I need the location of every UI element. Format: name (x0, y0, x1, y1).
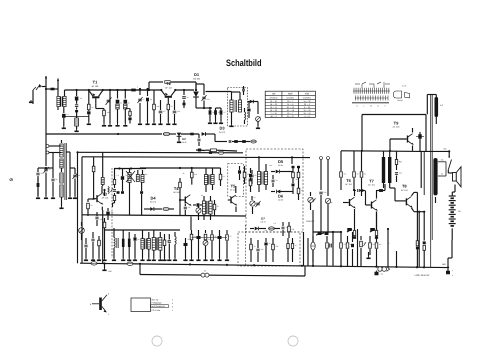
wire (387, 228, 389, 267)
svg-text:47: 47 (230, 235, 232, 238)
cap C12 (248, 102, 251, 119)
cap C13 (198, 134, 201, 146)
svg-text:5n: 5n (91, 204, 93, 207)
dial connector (393, 85, 409, 102)
long wire (361, 115, 426, 152)
junction (117, 133, 119, 135)
return bus (140, 264, 305, 276)
ground (29, 100, 33, 103)
IF transformer Tr4 (152, 230, 163, 261)
node U (45, 76, 47, 134)
resistor R10 (216, 108, 224, 124)
svg-text:0,1: 0,1 (67, 113, 69, 116)
resistor R23 (191, 167, 194, 178)
cap C14 (229, 140, 231, 143)
wire (396, 251, 398, 267)
pot P7 (360, 236, 366, 266)
svg-text:30: 30 (276, 179, 278, 182)
IF filter F1 box (228, 88, 248, 127)
cap C29 (272, 175, 275, 187)
tuning gang C18 (70, 168, 78, 199)
T5 symbol (228, 186, 238, 212)
wire (365, 191, 367, 206)
resistor R50 (375, 212, 378, 239)
resistor R22 (179, 178, 182, 201)
blob C23 (133, 234, 137, 261)
svg-text:15k: 15k (177, 110, 180, 113)
wire (45, 134, 47, 160)
svg-text:5k: 5k (80, 97, 82, 100)
wire (104, 89, 131, 91)
svg-text:D7: D7 (261, 217, 265, 221)
svg-text:2: 2 (108, 293, 110, 296)
diode D5 (271, 159, 286, 173)
resistor R45 (346, 236, 349, 266)
module box (228, 164, 244, 197)
svg-text:3k: 3k (364, 242, 366, 245)
antenna arrow (57, 78, 59, 90)
wire (332, 231, 334, 266)
svg-text:0,1: 0,1 (223, 175, 225, 178)
svg-text:T1: T1 (93, 80, 98, 85)
svg-text:1: 1 (172, 309, 173, 312)
wire rail (304, 232, 342, 266)
resistor R48 (375, 236, 378, 267)
volume pot P1 (79, 222, 85, 240)
svg-text:50: 50 (49, 168, 51, 171)
cap C32 (256, 240, 259, 262)
svg-text:Fertigungs-: Fertigungs- (152, 302, 163, 305)
svg-text:T2: T2 (166, 81, 171, 86)
svg-text:20 — 18: 20 — 18 (287, 109, 294, 112)
svg-text:20: 20 (399, 160, 401, 163)
svg-text:7 — 10: 7 — 10 (271, 112, 277, 115)
ferrite antenna L4 (60, 140, 67, 203)
svg-text:5k: 5k (425, 242, 427, 245)
svg-text:Si: Si (204, 270, 206, 273)
resistor R27 (243, 166, 246, 184)
resistor R18 (97, 236, 101, 261)
wire (258, 156, 293, 171)
svg-text:D2: D2 (182, 137, 186, 141)
svg-text:AC 151: AC 151 (345, 183, 353, 186)
resistor R1 (87, 90, 91, 125)
svg-text:T8: T8 (402, 184, 407, 189)
svg-text:0,1: 0,1 (381, 273, 384, 276)
contact (375, 271, 384, 276)
svg-text:25k: 25k (218, 111, 221, 114)
resistor R33 (250, 238, 253, 262)
wire (196, 84, 204, 95)
resistor R13 (241, 140, 250, 143)
svg-text:AC 153: AC 153 (401, 189, 409, 192)
electro C27 (238, 166, 241, 180)
connector X2 (127, 262, 133, 265)
resistor R16 (87, 199, 94, 216)
resistor R14 (37, 178, 40, 196)
wire (176, 89, 194, 91)
svg-text:2p: 2p (187, 96, 189, 99)
svg-text:9 — 25: 9 — 25 (304, 106, 310, 109)
long wire (82, 151, 310, 263)
svg-text:AC 128: AC 128 (393, 126, 401, 129)
resistor R6 (152, 90, 156, 125)
diode D3 (202, 126, 226, 136)
T6 symbol (343, 190, 356, 230)
volume pot P4 (308, 192, 316, 210)
svg-text:30: 30 (120, 102, 122, 105)
cap C17 (45, 167, 55, 199)
svg-text:L: L (137, 86, 138, 89)
svg-text:Schaltbild: Schaltbild (226, 57, 262, 68)
svg-text:9: 9 (9, 178, 15, 181)
terminal (46, 145, 56, 148)
svg-text:14 — 22: 14 — 22 (303, 100, 310, 103)
svg-text:10n: 10n (107, 111, 110, 114)
cap C7 (158, 100, 162, 125)
tuning cap C3 (106, 89, 113, 127)
svg-text:8p: 8p (56, 178, 58, 181)
svg-text:1n: 1n (269, 242, 271, 245)
cap C8 (172, 100, 176, 125)
connector X1 (91, 259, 97, 265)
svg-text:D4: D4 (150, 196, 156, 201)
svg-text:5n: 5n (364, 173, 366, 176)
transistor T3 (102, 192, 109, 200)
diode D4 (144, 196, 162, 211)
svg-text:20: 20 (217, 205, 219, 208)
resistor R25 (219, 168, 222, 186)
svg-text:T9: T9 (394, 121, 399, 126)
svg-text:18 — 20: 18 — 20 (270, 109, 277, 112)
page number 9 (9, 178, 15, 181)
svg-text:0,2: 0,2 (117, 174, 119, 177)
resistor R51 (416, 212, 419, 268)
svg-text:und Geräte-Nr.: und Geräte-Nr. (152, 305, 166, 308)
svg-text:18 — 11: 18 — 11 (270, 106, 277, 109)
battery B1 (449, 196, 462, 240)
trim cap C15 (43, 160, 48, 199)
svg-text:47: 47 (143, 98, 145, 101)
legend arrows (172, 299, 173, 313)
resistor R29 (292, 166, 295, 183)
electro C39 (316, 232, 324, 235)
osc coil L6 (112, 228, 118, 261)
resistor R4 (131, 86, 138, 92)
IF transformer Tr5 (204, 168, 214, 192)
diode D2 (176, 133, 187, 144)
punch mark (152, 336, 162, 346)
electro C43 (416, 132, 424, 151)
electro C35 (183, 238, 187, 261)
base wire (95, 104, 97, 109)
cap C16 (36, 168, 46, 199)
wire (229, 112, 233, 127)
svg-text:6,8: 6,8 (188, 206, 190, 209)
legend box (131, 298, 151, 312)
svg-text:1M: 1M (344, 173, 347, 176)
dashed shield (111, 168, 113, 258)
resistor R37 (225, 230, 229, 261)
svg-text:68: 68 (94, 167, 96, 170)
svg-text:FG.-Litze: FG.-Litze (152, 309, 161, 312)
ratio transformer Tr7 (257, 157, 292, 192)
svg-text:5 Ω: 5 Ω (440, 104, 444, 107)
electro C26 (196, 149, 205, 152)
svg-text:L0297 0646 S/E: L0297 0646 S/E (415, 274, 431, 277)
svg-text:30: 30 (208, 238, 210, 241)
punch mark (288, 336, 298, 346)
wire (452, 185, 455, 197)
pot P3 (250, 196, 261, 214)
svg-text:18 — 23: 18 — 23 (270, 103, 277, 106)
svg-text:U: U (45, 76, 47, 80)
svg-text:22 — 3: 22 — 3 (304, 103, 310, 106)
resistor R38 (340, 151, 343, 190)
svg-text:T6: T6 (346, 178, 351, 183)
svg-text:D3: D3 (219, 126, 225, 131)
transistor T6 (345, 178, 353, 186)
electro C20 (106, 208, 109, 220)
T8 symbol (395, 196, 413, 208)
svg-text:AF 106: AF 106 (92, 85, 100, 88)
legend text (151, 298, 169, 311)
resistor R42 (395, 151, 397, 170)
svg-text:a: a (94, 259, 95, 261)
svg-text:OA 85: OA 85 (182, 141, 187, 144)
svg-text:3k: 3k (183, 172, 185, 175)
value annotations (41, 96, 427, 251)
svg-text:1k: 1k (92, 106, 94, 109)
resistor R40 (360, 151, 363, 196)
svg-text:3n: 3n (286, 226, 288, 229)
T7 symbol (366, 190, 378, 230)
svg-text:3: 3 (172, 302, 173, 305)
wire (215, 134, 227, 142)
svg-text:50: 50 (314, 198, 316, 201)
resistor R8 (208, 107, 212, 124)
coil taps (56, 146, 64, 209)
svg-text:10k: 10k (157, 105, 160, 108)
resistor R35 (189, 230, 193, 261)
svg-text:4,7: 4,7 (224, 111, 226, 114)
pot P5 (203, 230, 208, 261)
legend transistor (90, 293, 110, 317)
osc coil L5 (101, 152, 113, 193)
trim cap C10 (201, 95, 206, 109)
svg-text:2: 2 (172, 305, 173, 308)
cap C25 (184, 204, 187, 215)
electro C40 (325, 232, 329, 235)
svg-text:75: 75 (125, 174, 127, 177)
wire (196, 107, 212, 109)
wire (181, 133, 199, 135)
svg-text:L: L (363, 105, 364, 108)
input column (249, 168, 252, 192)
svg-text:25k: 25k (276, 245, 279, 248)
wire (420, 150, 450, 152)
resistor R30 (297, 166, 300, 183)
svg-text:3n: 3n (167, 240, 169, 243)
svg-text:D1: D1 (194, 72, 200, 77)
resistor R17 (102, 218, 106, 261)
svg-text:2k: 2k (296, 178, 298, 181)
electro C45 (370, 228, 375, 232)
transistor T7 (368, 179, 376, 187)
svg-text:OA 85: OA 85 (278, 198, 283, 201)
svg-text:40n: 40n (350, 243, 353, 246)
tone pot P6 (325, 198, 330, 232)
svg-text:21 — 5: 21 — 5 (287, 103, 293, 106)
contact (446, 269, 454, 277)
resistor R43 (326, 236, 332, 266)
antenna jack J1 (33, 84, 46, 104)
svg-text:Dial pl: Dial pl (398, 99, 404, 102)
svg-text:5p: 5p (150, 98, 152, 101)
dashed line (245, 225, 247, 266)
svg-text:9V: 9V (458, 210, 461, 213)
driver transformer Tr8 (382, 151, 392, 188)
speaker LS1 (453, 167, 462, 187)
terminal (46, 151, 56, 154)
svg-text:LW: LW (272, 92, 276, 95)
svg-text:1 2 3: 1 2 3 (402, 85, 407, 88)
frequency range table (265, 91, 315, 118)
svg-text:1: 1 (108, 313, 110, 316)
cap C38 (319, 192, 322, 232)
resistor R34 (272, 238, 275, 262)
link wire (192, 237, 228, 239)
twin caps C34 (287, 238, 294, 262)
svg-text:AF 117: AF 117 (230, 189, 236, 192)
pot P0 (256, 102, 261, 130)
wire (52, 153, 54, 169)
terminal (320, 157, 323, 191)
svg-text:100: 100 (261, 248, 264, 251)
svg-text:75: 75 (344, 243, 346, 246)
cap C11 (242, 86, 245, 95)
svg-text:Ger.-Nr.: Ger.-Nr. (152, 298, 160, 301)
svg-text:+: + (452, 270, 454, 273)
resistor R39 (353, 151, 356, 190)
svg-text:26 — 3: 26 — 3 (271, 115, 277, 118)
wire (286, 172, 293, 192)
resistor R28 (213, 200, 216, 216)
junction (76, 151, 78, 153)
svg-text:MA: MA (444, 148, 448, 151)
ground bus (80, 263, 448, 267)
svg-text:B82: B82 (442, 263, 446, 266)
feedback resistor R5 (148, 81, 196, 91)
label (444, 148, 448, 151)
svg-text:40n: 40n (145, 173, 148, 176)
svg-text:3n: 3n (171, 105, 173, 108)
svg-text:15k: 15k (292, 228, 295, 231)
svg-text:OA 150: OA 150 (193, 78, 201, 81)
svg-text:AF 114: AF 114 (165, 86, 172, 89)
svg-text:0,2: 0,2 (330, 243, 332, 246)
svg-text:OA 172: OA 172 (150, 201, 156, 204)
blob R46 (351, 232, 354, 266)
svg-text:K: K (377, 105, 379, 108)
wire (66, 152, 72, 199)
svg-text:4,7: 4,7 (295, 244, 297, 247)
svg-text:0,1: 0,1 (417, 242, 419, 245)
transistor T1 (88, 80, 104, 104)
svg-text:1M: 1M (78, 174, 81, 177)
svg-text:20 — 7: 20 — 7 (287, 100, 293, 103)
resistor R15 (92, 157, 95, 199)
wire (425, 115, 427, 152)
svg-text:4: 4 (172, 299, 173, 302)
svg-text:OA 79: OA 79 (261, 220, 266, 223)
svg-text:AF 116: AF 116 (173, 191, 180, 194)
ground (102, 264, 112, 274)
transistor T9 (393, 121, 401, 129)
transistor T2 (160, 81, 176, 103)
wire top rail (341, 150, 420, 153)
svg-text:0,5: 0,5 (158, 239, 160, 242)
mid rail (82, 215, 246, 216)
wire (312, 236, 314, 262)
resistor R11 (190, 133, 193, 136)
svg-text:150: 150 (441, 158, 444, 161)
svg-text:68: 68 (357, 173, 359, 176)
svg-text:220: 220 (324, 191, 327, 194)
detector box (246, 149, 303, 232)
svg-text:1k: 1k (188, 238, 190, 241)
resistor R12 (232, 140, 241, 143)
resistor R32 (288, 222, 291, 238)
svg-text:0,5: 0,5 (274, 222, 276, 225)
svg-text:kHz/MHz: kHz/MHz (303, 97, 311, 100)
coil L8 (127, 232, 131, 261)
electro C37 (217, 230, 221, 261)
svg-text:24 — 27: 24 — 27 (287, 115, 294, 118)
wire (357, 229, 359, 266)
svg-text:KW: KW (305, 92, 310, 95)
cap C5 (123, 89, 131, 127)
svg-text:5p: 5p (138, 238, 140, 241)
IF transformer Tr6 (202, 196, 212, 220)
IF transformer Tr3 (140, 230, 151, 261)
resistor R9 (213, 108, 217, 124)
switch S2 (448, 151, 451, 169)
wire (389, 139, 391, 152)
svg-text:20 — 10: 20 — 10 (287, 106, 294, 109)
svg-text:10k: 10k (147, 239, 150, 242)
resistor R44 (340, 231, 343, 266)
svg-text:8p: 8p (331, 201, 333, 204)
svg-text:kHz/MHz: kHz/MHz (286, 97, 294, 100)
oscillator cluster (113, 167, 147, 215)
svg-text:23 — 7: 23 — 7 (287, 112, 293, 115)
svg-text:M: M (370, 105, 372, 108)
transistor T4 (173, 186, 180, 194)
svg-text:T: T (384, 105, 386, 108)
band switch S1 (352, 82, 390, 108)
cap C4 (115, 89, 119, 127)
cap C21 (91, 232, 95, 261)
trim cap C6 (137, 88, 142, 125)
cap C42 (395, 173, 398, 182)
svg-text:2k: 2k (215, 235, 217, 238)
coil L7 (121, 230, 125, 261)
electro C24 (193, 203, 204, 206)
svg-text:47: 47 (301, 189, 303, 192)
svg-text:D6: D6 (278, 194, 284, 199)
cap C9 (182, 89, 186, 108)
